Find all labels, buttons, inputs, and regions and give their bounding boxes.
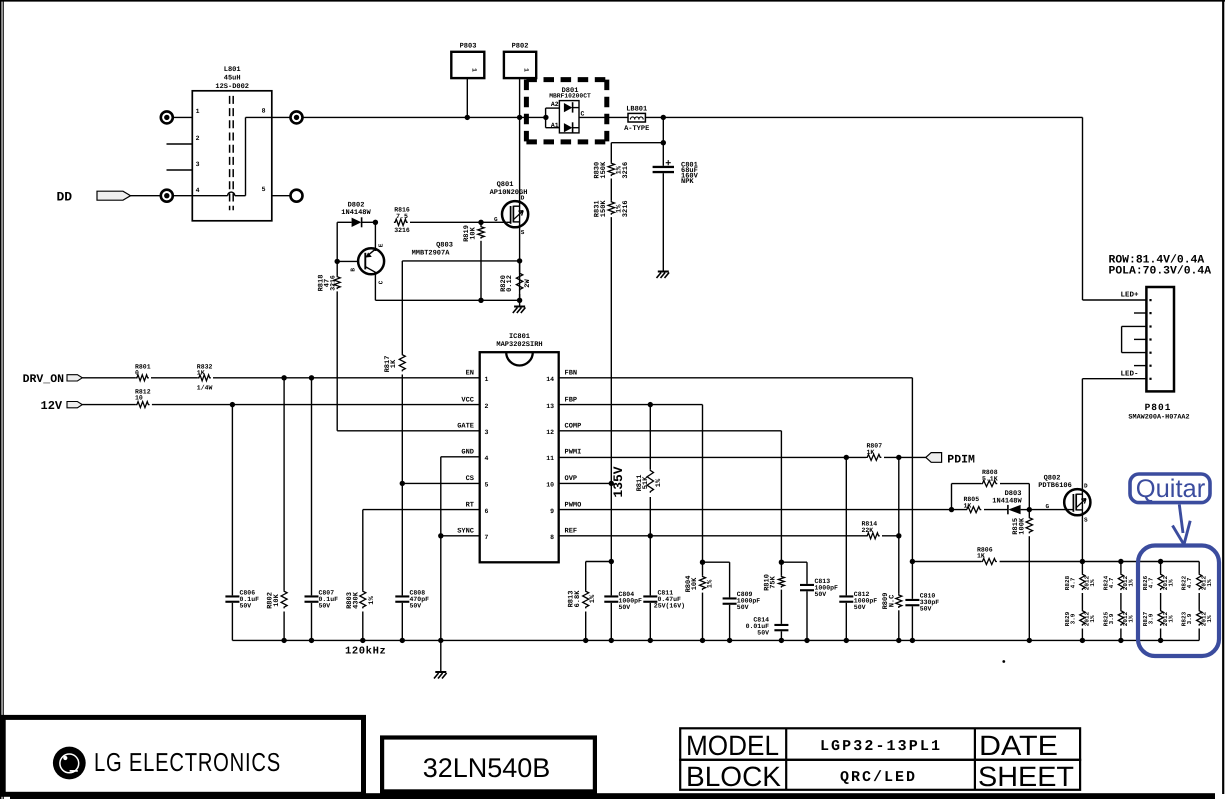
junction 12V / C806 [230,402,235,407]
svg-text:DD: DD [57,189,73,204]
connector P801 pin 7 mark [1149,378,1151,380]
wire R814 right [882,535,899,537]
wire SYNC line [441,535,480,537]
capacitor C801 [662,143,664,166]
svg-text:1%: 1% [1128,615,1135,623]
svg-text:1: 1 [471,68,478,72]
svg-text:45uH: 45uH [224,75,241,83]
svg-text:1%: 1% [706,579,714,588]
junction sense bottom 3 [1158,638,1163,643]
connector P801 pin 4 mark [1149,338,1151,340]
LG logo box [3,717,363,794]
svg-text:3.9: 3.9 [1186,613,1193,624]
svg-text:5: 5 [485,482,489,489]
svg-text:1%: 1% [1167,615,1174,623]
svg-text:MBRF10200CT: MBRF10200CT [549,93,591,100]
svg-text:13: 13 [546,403,554,410]
wire PWMO line [559,509,966,511]
svg-text:4: 4 [196,187,200,194]
svg-text:G: G [494,216,498,223]
svg-text:50V: 50V [619,604,631,611]
junction at C801 branch [661,115,666,120]
svg-text:ROW:81.4V/0.4A: ROW:81.4V/0.4A [1109,253,1205,266]
junction R806 / FBN [910,559,915,564]
P801 pin4 stub [1134,338,1146,340]
junction at P802 pin / Q801 drain [517,115,522,120]
junction EN / R802 [281,375,286,380]
svg-text:D: D [1084,483,1088,490]
svg-text:50V: 50V [240,602,252,609]
svg-text:32LN540B: 32LN540B [423,753,551,783]
svg-text:150K: 150K [600,161,608,179]
wire LB801 to right rail [645,116,1082,118]
junction R820 bottom / ground node [517,298,522,303]
svg-text:1K: 1K [390,359,398,368]
svg-text:P803: P803 [460,43,477,51]
wire R807-R814 column [898,457,900,593]
svg-text:VCC: VCC [461,396,474,404]
svg-text:75K: 75K [770,575,778,588]
connector P801 pin 1 mark [1149,299,1151,301]
wire Q803 collector [374,273,376,301]
junction divider bottom / C804 [609,559,614,564]
svg-text:4.7: 4.7 [1186,577,1193,588]
svg-text:FBN: FBN [565,370,578,378]
svg-text:IC801: IC801 [509,333,530,341]
svg-text:1%: 1% [368,596,376,605]
svg-text:DATE: DATE [979,730,1058,761]
wire FBP line [559,404,703,406]
wire R801 to R832 [151,377,198,379]
capacitor C807 [311,378,313,596]
terminal at L801 pin4 [173,195,192,197]
svg-text:C: C [377,280,384,284]
svg-text:A2: A2 [551,101,559,108]
transformer L801 body [192,91,271,221]
svg-text:7.5: 7.5 [396,213,408,220]
annotation removal box around R826/R822 group [1138,546,1219,657]
svg-text:MODEL: MODEL [686,730,779,761]
capacitor C808 [401,483,403,595]
wire LED- line [1082,378,1146,380]
svg-text:P801: P801 [1145,402,1172,413]
svg-text:LB801: LB801 [626,105,647,113]
terminal at L801 pin1 [173,116,192,118]
junction sense rail 2 [1118,559,1123,564]
svg-text:10K: 10K [273,593,281,606]
wire main rectified rail (top) [303,116,546,118]
svg-text:GND: GND [461,449,474,457]
svg-text:SYNC: SYNC [457,528,474,536]
svg-text:Q803: Q803 [436,241,453,249]
svg-text:1%: 1% [1089,615,1096,623]
wire Q801 drain-source through line [519,117,521,300]
svg-text:5: 5 [262,186,266,193]
svg-text:PDTB6106: PDTB6106 [1038,482,1072,490]
L801 pin3 stub [167,169,193,171]
svg-text:4.7: 4.7 [1069,577,1076,588]
junction EN / C807 [309,375,314,380]
svg-text:430K: 430K [352,591,360,609]
capacitor C811 [649,536,651,596]
wire GND pin line [441,456,480,458]
wire D802 anode branch [336,222,338,261]
svg-text:11: 11 [546,455,554,462]
wire Q802 drain to LED- [1081,379,1083,489]
junction REF / R811 / C811 [648,533,653,538]
svg-text:GATE: GATE [457,423,474,431]
svg-text:3216: 3216 [622,200,630,217]
junction at R819 top [478,220,483,225]
junction OVP / divider [609,481,614,486]
wire from D801 to LB801 [579,116,628,118]
svg-text:1N4148W: 1N4148W [992,498,1022,506]
svg-text:SMAW200A-H07AA2: SMAW200A-H07AA2 [1128,413,1189,421]
junction at Q801 source sense [517,258,522,263]
svg-text:E: E [377,243,384,247]
svg-text:G: G [1046,503,1050,510]
svg-text:10K: 10K [691,577,699,590]
svg-text:10: 10 [546,482,554,489]
svg-text:OVP: OVP [565,475,578,483]
L801 internal winding wire (pin8 to pin4) [246,116,272,118]
wire bottom ground rail [232,639,1199,641]
svg-text:3216: 3216 [329,275,336,291]
svg-text:1%: 1% [1128,579,1135,587]
svg-text:50V: 50V [757,630,769,637]
svg-text:50V: 50V [815,591,827,598]
svg-text:CS: CS [466,475,474,483]
svg-text:PDIM: PDIM [947,453,975,466]
junction PWMI / C812 [844,455,849,460]
P801 pin2 stub [1134,312,1146,314]
ground at R820 [519,300,521,306]
svg-text:C: C [581,110,585,117]
svg-text:D: D [521,195,525,202]
wire R805 to D803 [984,509,1008,511]
annotation arrow [1179,505,1183,534]
svg-text:RT: RT [466,501,474,509]
svg-text:1N4148W: 1N4148W [341,209,371,217]
svg-text:7: 7 [485,534,489,541]
svg-text:S: S [1084,517,1088,524]
terminal at L801 pin5 [272,195,291,197]
svg-text:1: 1 [196,108,200,115]
junction COMP column / R810 [779,560,784,565]
junction sense bottom 2 [1118,638,1123,643]
wire Q802 source [1081,514,1083,561]
capacitor C812 [845,457,847,595]
svg-text:1/4W: 1/4W [197,384,213,391]
svg-text:Q801: Q801 [497,181,514,189]
svg-text:0.12: 0.12 [506,275,514,292]
wire bracket to R830 divider [611,142,663,144]
P801 pin6 stub [1134,365,1146,367]
svg-text:FBP: FBP [565,396,578,404]
LG logo symbol [53,747,86,780]
connector P801 pin 5 mark [1149,352,1151,354]
svg-text:4: 4 [485,455,489,462]
svg-text:1%: 1% [655,478,663,487]
svg-text:3.9: 3.9 [1069,613,1076,624]
wire RT line [363,509,480,511]
svg-text:LG ELECTRONICS: LG ELECTRONICS [94,747,281,777]
junction at P803 pin [465,115,470,120]
wire EN line [213,377,480,379]
svg-text:3: 3 [485,429,489,436]
svg-text:BLOCK: BLOCK [686,761,781,792]
svg-text:3.9: 3.9 [1108,613,1115,624]
wire Q803 base [337,260,358,262]
junction FBP / R811 [648,402,653,407]
connector P801 pin 2 mark [1149,312,1151,314]
wire REF line [559,535,866,537]
svg-text:1%: 1% [589,594,597,603]
capacitor C813 [781,561,807,563]
junction CS / R817 / C808 [400,481,405,486]
wire FBN line [559,377,913,379]
junction PWMO / R808 [949,507,954,512]
svg-text:10K: 10K [469,226,477,239]
svg-text:POLA:70.3V/0.4A: POLA:70.3V/0.4A [1109,265,1212,278]
capacitor C814 [780,590,782,624]
svg-text:PWMO: PWMO [565,501,582,509]
svg-text:8: 8 [550,534,554,541]
wire C801 branch down [662,117,664,142]
junction FBP column / R804 [700,560,705,565]
svg-text:MMBT2907A: MMBT2907A [412,250,451,258]
svg-text:SHEET: SHEET [978,761,1074,792]
svg-text:4.7: 4.7 [1148,577,1155,588]
junction R814 / R809 column [896,533,901,538]
junction Q802 source / sense rail [1080,559,1085,564]
svg-text:100K: 100K [1018,517,1026,535]
svg-text:150K: 150K [600,200,608,218]
svg-text:25V(16V): 25V(16V) [654,602,685,609]
IC801 body [480,352,559,562]
page border frame [0,0,2,799]
svg-text:S: S [521,229,525,236]
svg-text:LED-: LED- [1121,371,1139,379]
junction GND column / rail [438,638,443,643]
svg-text:12: 12 [546,429,554,436]
svg-text:QRC/LED: QRC/LED [840,769,917,786]
title table grid [680,728,1080,760]
transistor Q802 MOSFET symbol [1064,489,1090,515]
connector P801 body [1146,287,1174,391]
svg-text:1%: 1% [1167,579,1174,587]
svg-text:1: 1 [523,68,530,72]
svg-text:REF: REF [565,528,578,536]
wire source sense to R817 [402,260,519,262]
svg-text:L801: L801 [224,66,241,74]
dashed highlight box around D801 [526,77,606,82]
capacitor C806 [231,405,233,596]
svg-text:3216: 3216 [622,162,630,179]
svg-text:3: 3 [196,161,200,168]
wire LED+ rail [1082,117,1084,300]
junction sense bottom 1 [1080,638,1085,643]
junction at Q803 base / R818 [335,259,340,264]
junction R807/PDIM column [896,455,901,460]
svg-text:EN: EN [466,370,474,378]
svg-text:50V: 50V [920,606,932,613]
svg-text:12S-D002: 12S-D002 [215,83,249,91]
svg-text:9: 9 [550,508,554,515]
terminal at L801 pin8 [272,116,291,118]
svg-text:4.7: 4.7 [1108,577,1115,588]
svg-text:NPK: NPK [681,178,694,186]
svg-text:1%: 1% [1089,579,1096,587]
L801 pin2 stub [167,143,193,145]
capacitor C809 [703,561,730,563]
junction R815 / rail [1027,638,1032,643]
junction R819 bottom [478,298,483,303]
wire GATE line [337,430,480,432]
svg-text:LGP32-13PL1: LGP32-13PL1 [820,738,942,755]
svg-text:DRV_ON: DRV_ON [23,373,65,386]
wire CS line [402,482,479,484]
transistor Q803 PNP symbol [358,248,384,274]
junction at Q803 emitter [373,220,378,225]
ground at GND column [440,640,442,671]
svg-text:PWMI: PWMI [565,449,582,457]
svg-text:3216: 3216 [394,227,410,234]
svg-text:1%: 1% [1206,579,1213,587]
ground at C801 [658,271,669,273]
svg-text:12V: 12V [41,399,63,413]
svg-text:2W: 2W [524,279,532,288]
svg-text:3.9: 3.9 [1148,613,1155,624]
model number box [382,738,595,792]
svg-text:8: 8 [262,108,266,115]
svg-text:LED+: LED+ [1121,292,1140,300]
wire OVP line [559,482,612,484]
junction SYNC to GND column [438,533,443,538]
wire PWMI line [559,456,866,458]
svg-text:1%: 1% [1206,615,1213,623]
svg-text:P802: P802 [512,43,529,51]
wire COMP line [559,430,782,432]
svg-text:6.8K: 6.8K [574,590,582,608]
svg-text:1: 1 [485,376,489,383]
transformer core dashed lines [229,96,231,210]
svg-text:22K: 22K [862,527,874,534]
P801 pin3-pin5 jumper [1122,325,1147,327]
connector P801 pin 3 mark [1149,325,1151,327]
wire to Q802 gate [1029,509,1069,511]
svg-text:B: B [350,268,357,272]
svg-text:50V: 50V [737,604,749,611]
transistor Q801 MOSFET symbol [502,201,528,227]
svg-text:6: 6 [485,508,489,515]
svg-text:2: 2 [196,135,200,142]
svg-text:N.C: N.C [888,595,896,608]
page bottom bar [10,793,1215,799]
node PDIM output tag [926,453,942,463]
svg-text:135V: 135V [611,466,626,497]
svg-text:2: 2 [485,403,489,410]
wire R807 right [884,456,926,458]
svg-text:COMP: COMP [565,423,582,431]
capacitor C804 [610,483,612,595]
svg-text:10: 10 [135,394,143,401]
junction sense rail 3 [1158,559,1163,564]
svg-text:50V: 50V [854,604,866,611]
svg-text:14: 14 [546,376,554,383]
svg-text:A-TYPE: A-TYPE [624,125,649,133]
wire sense top rail [1082,561,1199,563]
wire R816 to Q801 gate [410,221,507,223]
annotation Quitar callout box [1130,474,1210,503]
svg-text:50V: 50V [319,602,331,609]
svg-text:50V: 50V [410,602,422,609]
junction D803 / R815 / gate [1027,507,1032,512]
svg-text:Quitar: Quitar [1136,475,1206,503]
capacitor C810 [905,599,919,601]
diode D801 body [559,101,579,133]
svg-text:MAP3202SIRH: MAP3202SIRH [496,341,542,349]
stray ink dot [1002,660,1005,663]
svg-text:120kHz: 120kHz [345,645,386,657]
svg-text:+: + [665,159,671,170]
connector P801 pin 6 mark [1149,365,1151,367]
wire VCC line [152,404,480,406]
wire Q803 emitter [374,222,376,251]
